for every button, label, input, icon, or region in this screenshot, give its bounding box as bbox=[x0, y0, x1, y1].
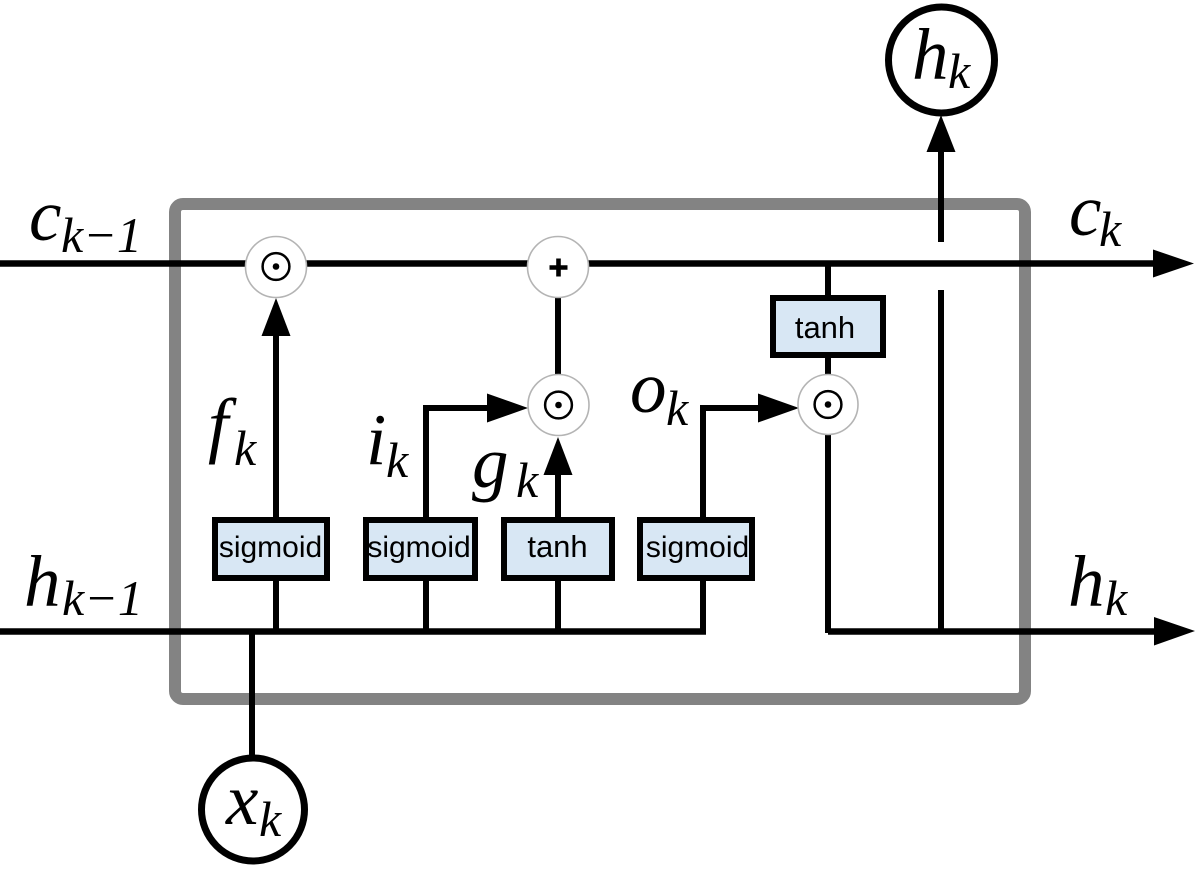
svg-text:sigmoid: sigmoid bbox=[367, 531, 470, 564]
svg-text:g: g bbox=[472, 422, 509, 503]
svg-text:k: k bbox=[666, 380, 689, 436]
svg-text:o: o bbox=[630, 347, 667, 428]
svg-text:tanh: tanh bbox=[527, 529, 587, 564]
svg-text:k: k bbox=[259, 791, 282, 847]
svg-text:c: c bbox=[1069, 170, 1101, 251]
svg-text:i: i bbox=[366, 399, 386, 480]
svg-text:h: h bbox=[24, 541, 61, 622]
svg-text:k: k bbox=[1105, 570, 1128, 626]
svg-text:sigmoid: sigmoid bbox=[646, 531, 749, 564]
svg-text:k: k bbox=[516, 452, 539, 508]
svg-text:x: x bbox=[225, 759, 258, 840]
svg-text:k: k bbox=[386, 432, 409, 488]
svg-text:k: k bbox=[234, 420, 257, 476]
svg-text:c: c bbox=[29, 175, 61, 256]
svg-text:h: h bbox=[912, 14, 949, 95]
svg-text:tanh: tanh bbox=[795, 310, 855, 345]
svg-text:sigmoid: sigmoid bbox=[219, 531, 322, 564]
svg-text:k: k bbox=[948, 43, 971, 99]
svg-text:k: k bbox=[1099, 201, 1122, 257]
svg-text:h: h bbox=[1068, 541, 1105, 622]
svg-text:k−1: k−1 bbox=[61, 207, 142, 263]
svg-text:k−1: k−1 bbox=[62, 570, 143, 626]
